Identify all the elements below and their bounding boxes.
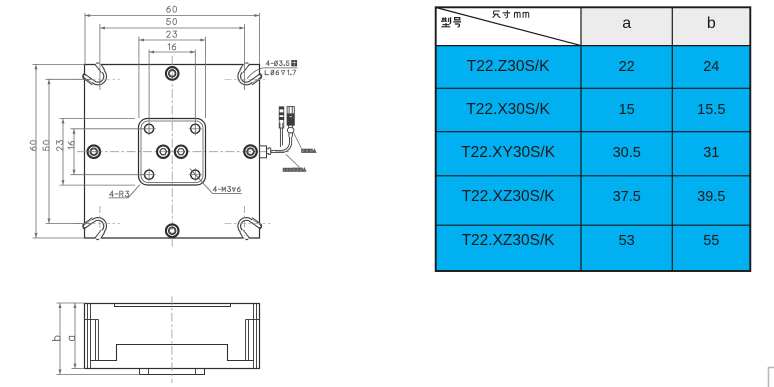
PZT input label (CJK approx) [283, 168, 306, 171]
M3 hole bottom-right of square [189, 168, 202, 181]
connector block on right edge [260, 146, 267, 158]
header CJK: model (xing-hao) [441, 17, 461, 27]
hook slot bottom-left [83, 218, 105, 239]
dimension 50 top [100, 24, 245, 90]
side view right edge lines [246, 304, 260, 369]
side view stepped pocket [91, 345, 254, 361]
sensor connector (small plug) [279, 107, 284, 128]
cable stub to sensor connector [280, 128, 282, 147]
cable ferrule [267, 148, 271, 154]
header CJK: size (chi-cun) [493, 10, 511, 18]
hook slot bottom-right [239, 218, 261, 239]
hook slot top-right [239, 64, 261, 85]
side view bottom tab [140, 369, 205, 375]
hook row center line bottom-right [224, 223, 270, 225]
bottom-right gray box corner [769, 368, 774, 387]
counterbore hole top [166, 67, 179, 80]
hook slot top-left [83, 64, 105, 85]
counterbore hole left [86, 145, 102, 158]
table outer border [436, 7, 751, 271]
dimension b side [57, 303, 140, 375]
table header cell model/size [436, 7, 581, 45]
hook row center line top-right [224, 78, 266, 80]
cable bend to PZT connector [281, 137, 291, 153]
inner rounded square (outer) [139, 119, 206, 186]
M3 hole bottom-left of square [143, 168, 156, 181]
M3 hole top-right of square [189, 122, 202, 135]
label 4-R3 [109, 185, 140, 198]
leader to PZT label [286, 154, 300, 167]
table text [622, 15, 631, 33]
sensor input label (CJK approx) [302, 149, 316, 152]
center line horizontal [77, 151, 290, 153]
side view top recess line [115, 304, 231, 307]
hook center line vertical bottom-right [244, 206, 246, 236]
cable horizontal run [271, 150, 282, 152]
side view left edge lines [85, 304, 99, 369]
table grid [436, 7, 751, 271]
hook row center line bottom-left [74, 223, 120, 225]
header text mm [515, 12, 529, 18]
M3 hole top-left of square [143, 122, 156, 135]
leader to sensor label [294, 133, 302, 149]
counterbore hole right [244, 145, 257, 158]
center screw left [157, 146, 169, 158]
dimension 23 top [139, 37, 206, 119]
PZT connector (large plug) [287, 107, 294, 137]
label 4-dia3.5 hole / cbore dia6 depth1.7 [247, 61, 298, 79]
center line vertical [171, 56, 173, 248]
side view outline [85, 304, 260, 369]
header diagonal [436, 8, 581, 46]
table header cells a b [581, 7, 750, 45]
dimension 60 top [85, 13, 259, 64]
dimension 23 left [60, 118, 136, 185]
plate outline front view [85, 65, 260, 239]
side view center line [171, 296, 173, 383]
center screw right [175, 146, 187, 158]
dimension 16 left [71, 129, 146, 175]
label 4-M3 depth 6 [190, 169, 242, 194]
hook center line vertical bottom-left [99, 206, 101, 236]
dimension 50 left [46, 79, 93, 223]
counterbore hole bottom [166, 224, 179, 237]
dimension 16 top [149, 50, 195, 136]
table blue body [436, 46, 751, 271]
dimension 60 left [33, 64, 86, 238]
inner rounded square (inner line) [141, 121, 203, 183]
dimension a side [72, 303, 86, 369]
hook row center line top-left [74, 78, 120, 80]
